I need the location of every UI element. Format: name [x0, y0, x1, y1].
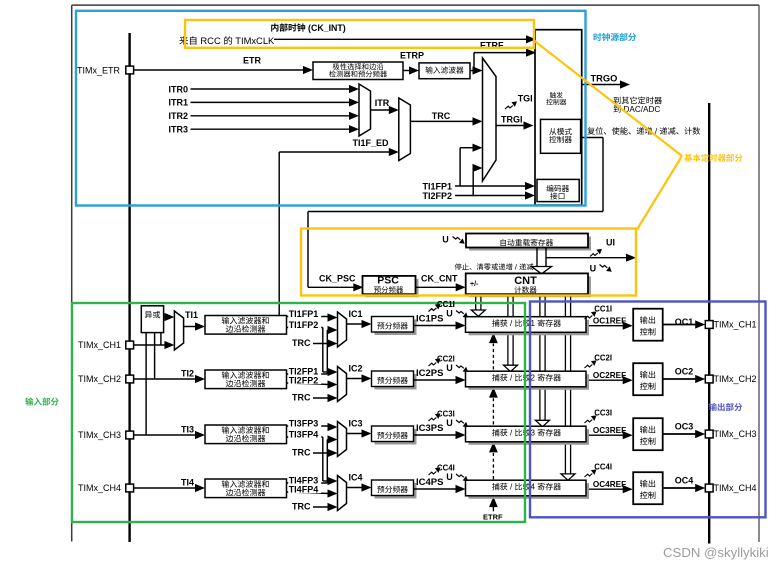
- event CC1I right: [585, 316, 593, 320]
- mux TRC select: [399, 98, 411, 161]
- svg-text:ITR0: ITR0: [169, 84, 189, 94]
- svg-text:U: U: [446, 363, 453, 373]
- wire TI2FP1: [287, 373, 328, 375]
- event CC3I right: [585, 420, 593, 424]
- label to other timers to DAC/ADC: [614, 97, 621, 104]
- svg-text:TI2: TI2: [181, 368, 194, 378]
- wire ETRF to capture register 4: [492, 506, 494, 512]
- annotation callout line basic timer: [534, 41, 682, 157]
- event CC1I left: [429, 308, 437, 312]
- svg-text:CK_CNT: CK_CNT: [421, 274, 458, 284]
- block PSC prescaler: [366, 279, 419, 297]
- svg-text:TIMxCLK: TIMxCLK: [233, 35, 275, 46]
- svg-text:U: U: [590, 264, 597, 274]
- wire CH1 to TI1 mux: [134, 344, 167, 346]
- svg-text:OC4REF: OC4REF: [593, 480, 626, 489]
- mux IC3: [338, 422, 347, 457]
- wire TI2FP2: [287, 383, 330, 385]
- wire TI3FP4: [287, 436, 323, 438]
- mux IC2: [338, 367, 347, 402]
- wire CK_INT internal clock: [274, 38, 528, 40]
- svg-text:TIMx_CH1: TIMx_CH1: [714, 320, 757, 330]
- label TI2FP1: [288, 366, 321, 375]
- wire TI3FP3: [287, 425, 332, 427]
- svg-text:TIMx_CH2: TIMx_CH2: [714, 374, 757, 384]
- block slave mode controller: [541, 119, 581, 153]
- label TI2FP2: [288, 375, 321, 384]
- svg-text:OC3REF: OC3REF: [593, 426, 626, 435]
- svg-text:IC2: IC2: [349, 363, 363, 373]
- svg-text:CC1I: CC1I: [437, 300, 455, 309]
- svg-text:TRC: TRC: [432, 111, 451, 121]
- svg-text:OC2REF: OC2REF: [593, 371, 626, 380]
- svg-text:/: /: [508, 483, 515, 492]
- svg-text:ETRF: ETRF: [483, 512, 503, 521]
- svg-text:IC3PS: IC3PS: [416, 423, 443, 434]
- block prescaler ch3: [375, 429, 417, 445]
- svg-text:TRC: TRC: [292, 448, 311, 458]
- mux IC4: [338, 476, 347, 511]
- block output control ch1: [633, 309, 663, 341]
- svg-text:TI1F_ED: TI1F_ED: [353, 138, 390, 148]
- wire TI4FP3: [287, 482, 328, 484]
- wire TI3FP4 cross down: [322, 437, 324, 481]
- label TI1FP1: [288, 309, 321, 318]
- svg-text:(CK_INT): (CK_INT): [306, 23, 346, 33]
- label TI3FP3: [288, 418, 321, 427]
- svg-text:/: /: [508, 374, 515, 383]
- annotation clock source frame: [76, 11, 586, 206]
- block input filter edge detector ch1: [205, 316, 287, 335]
- svg-text:CK_PSC: CK_PSC: [319, 274, 356, 284]
- block trigger controller U1: [535, 30, 582, 205]
- wire IC1 to prescaler: [347, 323, 364, 325]
- wire TI1FP1 to encoder: [455, 185, 527, 187]
- wires XOR input taps: [160, 333, 162, 345]
- svg-text:IC4PS: IC4PS: [416, 477, 443, 488]
- wire TI2FP2 branch to trigger mux: [472, 168, 474, 196]
- event CC4I right: [585, 474, 593, 478]
- svg-text:CNT: CNT: [514, 275, 537, 287]
- bus ARR to CNT: [536, 248, 538, 267]
- svg-text:TI4FP4: TI4FP4: [289, 485, 319, 495]
- label internal clock CK_INT: [271, 23, 278, 31]
- wire TI1F_ED: [278, 152, 280, 316]
- pad TIMx_ETR: [126, 66, 134, 74]
- wire TRC to trigger mux: [410, 120, 474, 122]
- svg-text:CC4I: CC4I: [594, 462, 612, 471]
- svg-text:IC4: IC4: [349, 472, 363, 482]
- svg-text:TRGI: TRGI: [501, 115, 523, 125]
- svg-text:OC4: OC4: [675, 475, 694, 485]
- svg-text:ITR: ITR: [375, 98, 390, 108]
- svg-text:TIMx_CH4: TIMx_CH4: [714, 483, 757, 493]
- svg-text:TIMx_CH4: TIMx_CH4: [78, 483, 121, 493]
- event CC2I right: [585, 365, 593, 369]
- wire ETRF to trigger controller: [473, 53, 475, 71]
- label TI4FP4: [288, 484, 321, 493]
- svg-text:PSC: PSC: [377, 275, 399, 287]
- annotation internal clock frame: [185, 20, 534, 48]
- block prescaler ch1: [375, 320, 417, 336]
- wire TI1: [184, 326, 197, 328]
- svg-text:U: U: [446, 472, 453, 482]
- wire CK_CNT: [416, 286, 458, 288]
- svg-text:U: U: [446, 418, 453, 428]
- svg-text:CC2I: CC2I: [437, 354, 455, 363]
- block input filter edge detector ch4: [205, 479, 287, 498]
- pad TIMx_CH4: [126, 484, 134, 492]
- svg-text:2: 2: [531, 374, 538, 383]
- svg-text:CC2I: CC2I: [594, 353, 612, 362]
- wire TI1FP2 cross down: [322, 328, 324, 373]
- block polarity-selection edge-detector prescaler: [313, 62, 403, 80]
- svg-text:U: U: [446, 308, 453, 318]
- svg-text:TIMx_CH1: TIMx_CH1: [78, 340, 121, 350]
- wire TI1FP2: [287, 327, 323, 329]
- block input-filter ETR: [419, 63, 470, 79]
- svg-text:4: 4: [531, 483, 538, 492]
- svg-text:IC1PS: IC1PS: [416, 313, 443, 324]
- svg-text:TIMx_CH3: TIMx_CH3: [714, 429, 757, 439]
- svg-text:CC4I: CC4I: [437, 463, 455, 472]
- register capture compare 2: [469, 374, 590, 390]
- wire XOR out: [164, 316, 167, 318]
- block encoder interface: [537, 179, 579, 201]
- svg-text:OC1REF: OC1REF: [593, 316, 626, 325]
- svg-text:ITR3: ITR3: [169, 125, 189, 135]
- wire ITR: [371, 109, 391, 111]
- svg-text:CC1I: CC1I: [594, 304, 612, 313]
- label basic timer section: [684, 154, 692, 162]
- wire IC3 to prescaler: [347, 433, 364, 435]
- event CC3I left: [429, 418, 437, 422]
- pad TIMx_CH2 output: [705, 375, 713, 383]
- wire TI4FP3 cross up: [326, 440, 328, 484]
- pad TIMx_CH1 output: [705, 321, 713, 329]
- block XOR: [141, 306, 163, 333]
- block input filter edge detector ch3: [205, 425, 287, 444]
- pad TIMx_CH3: [126, 431, 134, 439]
- svg-text:ETR: ETR: [243, 56, 262, 66]
- svg-text:/: /: [508, 319, 515, 328]
- svg-text:IC3: IC3: [349, 418, 363, 428]
- wire IC4 to prescaler: [347, 487, 364, 489]
- svg-text:UI: UI: [606, 238, 615, 248]
- svg-text:IC1: IC1: [349, 309, 363, 319]
- block CNT counter: [469, 276, 591, 297]
- event CC1I left overlay: [429, 308, 437, 312]
- wire slave mode to CK_PSC: [581, 137, 603, 139]
- svg-text:/: /: [513, 263, 519, 272]
- outer figure frame: [72, 4, 759, 6]
- svg-text:TI3: TI3: [181, 424, 194, 434]
- svg-text:TRC: TRC: [292, 338, 311, 348]
- svg-text:ETRP: ETRP: [400, 50, 424, 60]
- register capture compare 4: [469, 483, 590, 499]
- block output control ch3: [633, 418, 663, 450]
- svg-text:ITR2: ITR2: [169, 111, 189, 121]
- annotation basic timer frame: [301, 229, 636, 296]
- svg-text:CC3I: CC3I: [594, 408, 612, 417]
- label output section: [709, 403, 717, 411]
- wire ETRP: [403, 70, 411, 72]
- wire ETR: [134, 69, 305, 71]
- annotation input frame: [72, 303, 525, 522]
- mux IC1: [338, 312, 347, 347]
- pad TIMx_CH2: [126, 375, 134, 383]
- label from RCC TIMxCLK: [179, 36, 188, 45]
- label TI4FP3: [288, 475, 321, 484]
- svg-text:OC1: OC1: [675, 317, 694, 327]
- svg-text:OC3: OC3: [675, 421, 694, 431]
- svg-text:TI3FP3: TI3FP3: [289, 418, 319, 428]
- label clock source section: [594, 33, 602, 41]
- event CC2I left: [429, 363, 437, 367]
- wire update event out: [546, 257, 628, 259]
- right pin bus line: [708, 103, 710, 544]
- svg-text:TI2FP2: TI2FP2: [289, 376, 319, 386]
- wire TI4: [134, 487, 197, 489]
- wire TI1FP1: [287, 316, 332, 318]
- svg-text:CSDN @skyllykiki: CSDN @skyllykiki: [663, 545, 769, 560]
- wire TI4FP4: [287, 492, 330, 494]
- wire ETRF to trigger mux: [470, 70, 475, 72]
- label TI1FP2: [288, 320, 321, 329]
- svg-text:TRGO: TRGO: [591, 74, 618, 84]
- mux trigger TRGI select: [483, 58, 497, 181]
- svg-text:CC3I: CC3I: [437, 409, 455, 418]
- block output control ch4: [633, 472, 663, 504]
- svg-text:TI1FP1: TI1FP1: [289, 309, 319, 319]
- label input section: [25, 398, 33, 406]
- event TGI: [505, 106, 513, 110]
- block auto-reload register ARR: [469, 237, 591, 251]
- pad TIMx_CH1: [126, 341, 134, 349]
- pad TIMx_CH3 output: [705, 430, 713, 438]
- label TI3FP4: [288, 429, 321, 438]
- svg-text:TIMx_CH3: TIMx_CH3: [78, 430, 121, 440]
- svg-text:TI4: TI4: [181, 477, 194, 487]
- svg-text:TI1: TI1: [185, 310, 198, 320]
- svg-text:OC2: OC2: [675, 366, 694, 376]
- annotation output frame: [530, 302, 766, 518]
- label stop clear updown: [455, 263, 462, 270]
- dashed compare feedback lines: [492, 344, 494, 370]
- svg-text:+/-: +/-: [470, 281, 479, 288]
- wire IC2 to prescaler: [347, 378, 364, 380]
- svg-text:TI2FP2: TI2FP2: [423, 191, 453, 201]
- svg-text:TI3FP4: TI3FP4: [289, 430, 319, 440]
- svg-text:TI1FP1: TI1FP1: [423, 182, 453, 192]
- register capture compare 3: [469, 429, 590, 445]
- wire TI1FP1 branch to trigger mux: [459, 148, 461, 186]
- event CC4I left: [429, 472, 437, 476]
- wire TRGO: [582, 84, 622, 86]
- svg-text:TI1FP2: TI1FP2: [289, 320, 319, 330]
- label reset enable up-down count: [587, 127, 595, 135]
- svg-text:ITR1: ITR1: [169, 98, 189, 108]
- register capture compare 1: [469, 320, 590, 336]
- svg-text:3: 3: [531, 429, 538, 438]
- svg-text:U: U: [442, 234, 449, 244]
- svg-text:/: /: [508, 429, 515, 438]
- block prescaler ch2: [375, 374, 417, 390]
- svg-text:1: 1: [531, 319, 538, 328]
- svg-text:TIMx_ETR: TIMx_ETR: [77, 65, 121, 75]
- svg-text:IC2PS: IC2PS: [416, 368, 443, 379]
- pad TIMx_CH4 output: [705, 484, 713, 492]
- svg-text:TIMx_CH2: TIMx_CH2: [78, 374, 121, 384]
- svg-text:TRC: TRC: [292, 502, 311, 512]
- wire TI3: [134, 434, 197, 436]
- wire TI2FP2 to encoder: [455, 195, 527, 197]
- block input filter edge detector ch2: [205, 370, 287, 389]
- wire TI2FP1 cross up: [326, 330, 328, 374]
- wire TI2: [134, 378, 197, 380]
- mux ITR select: [359, 84, 371, 136]
- block output control ch2: [633, 363, 663, 395]
- left pin bus line: [128, 33, 130, 542]
- wire TRGI: [496, 125, 526, 127]
- block prescaler ch4: [375, 483, 417, 499]
- svg-text:RCC: RCC: [198, 35, 224, 46]
- svg-text:TRC: TRC: [292, 393, 311, 403]
- bus CNT to capture registers: [475, 294, 477, 310]
- svg-text:TGI: TGI: [518, 94, 533, 104]
